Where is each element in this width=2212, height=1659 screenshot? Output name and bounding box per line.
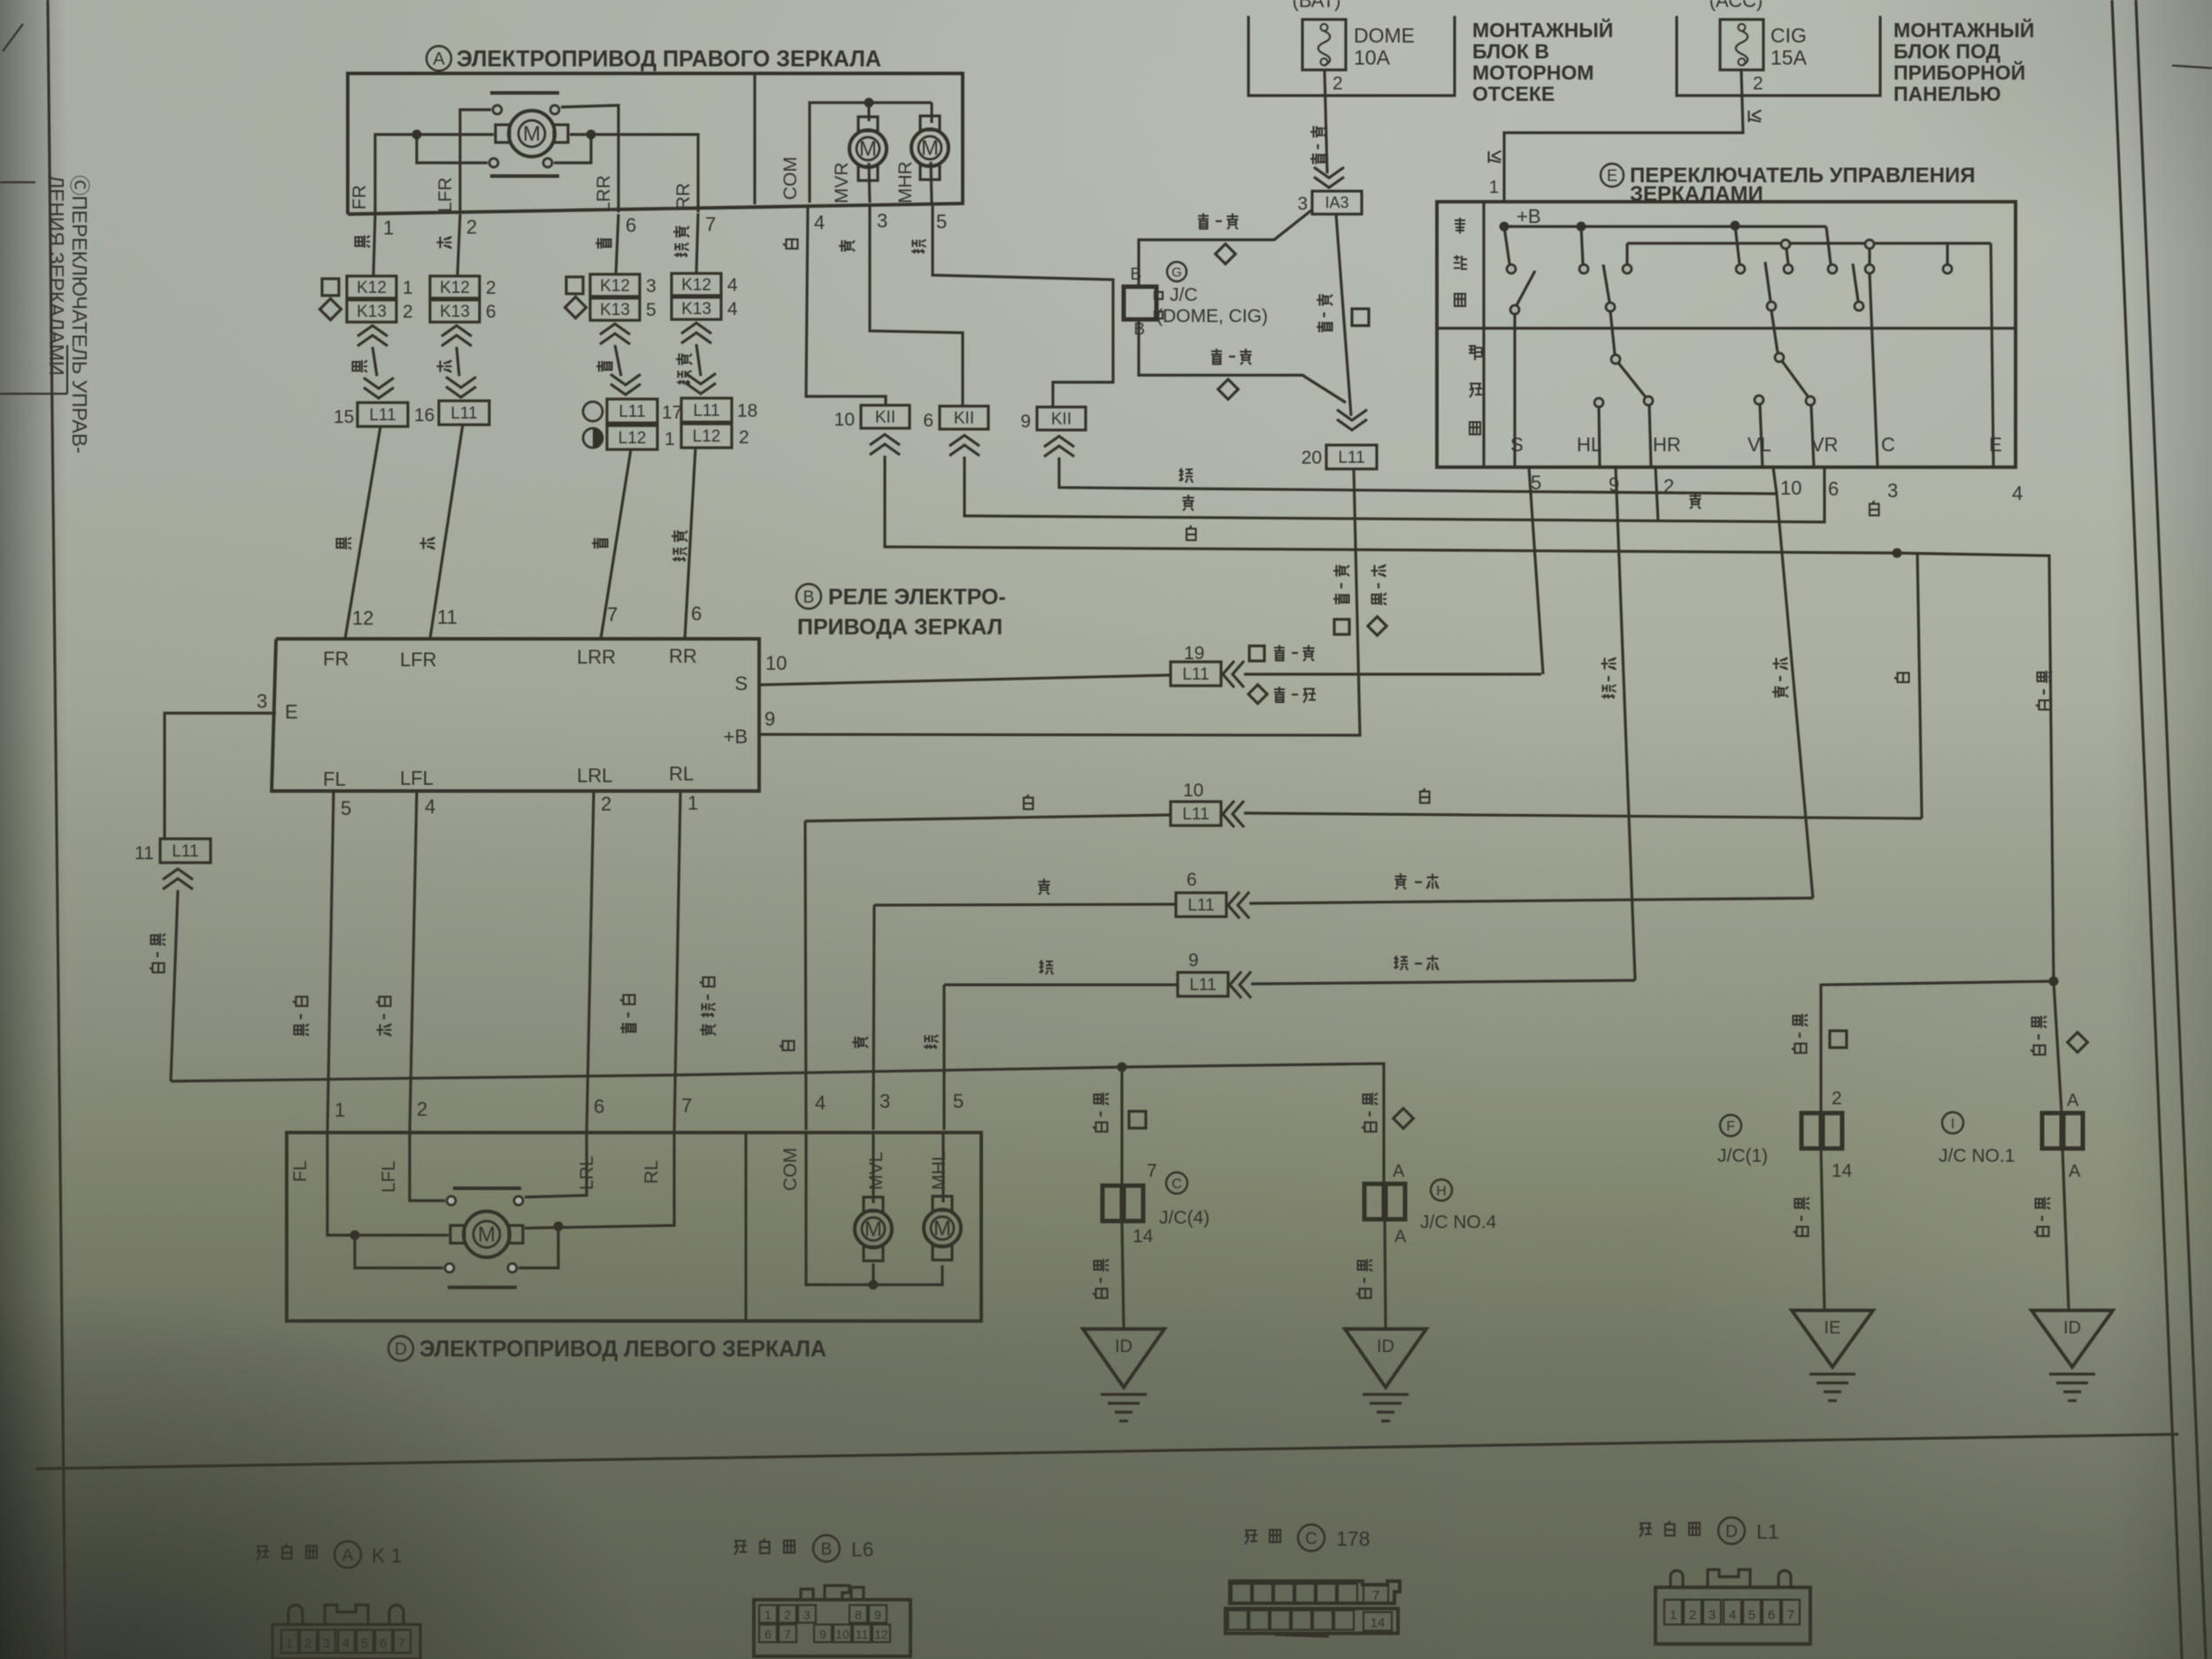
wire color red col2 row3 [420,538,435,549]
svg-text:E: E [285,701,298,723]
svg-text:2: 2 [1689,1608,1696,1623]
title E line1 [1601,164,1624,187]
wire LFR pin2 to K12 [457,214,460,276]
label green circuit9 [1179,468,1194,483]
label H circled [1431,1179,1452,1201]
connector K11-10 [861,405,910,428]
svg-text:16: 16 [414,405,434,426]
wire LRR to TR contact [561,105,618,212]
wire VL to changeover pivot [1771,311,1778,352]
wire VL contact down [1760,404,1763,467]
junction dot bus1 c [1731,221,1740,231]
label C circled [1166,1172,1187,1194]
motor bar bottom box D [448,1286,517,1289]
wire RR to motor right [570,134,698,212]
contact HL top [1579,265,1588,273]
connector K13 pin4 [672,297,721,319]
svg-text:15: 15 [334,407,354,427]
label black-white C col [1094,1093,1110,1105]
svg-text:LRL: LRL [577,764,612,787]
chevrons under K11-9 [1044,436,1074,457]
label white COM-D col [780,1041,795,1051]
svg-text:K13: K13 [440,303,470,321]
svg-text:6: 6 [923,411,933,431]
svg-text:3: 3 [803,1608,810,1622]
contact BL box A [489,158,498,167]
chevrons under K13 col4 [681,323,711,343]
svg-text:L11: L11 [369,406,396,425]
wire E down [1991,243,1993,467]
svg-text:6: 6 [380,1636,387,1651]
contact HL bottom [1594,398,1603,407]
svg-text:A: A [433,50,445,69]
junction dot FL-D [350,1231,360,1240]
switch box E outline [1437,202,2016,467]
wire dotRL to BR [518,1231,558,1268]
chevrons above L11-18 [686,373,716,394]
wire HL contact down [1599,407,1600,467]
svg-text:L11: L11 [450,404,477,423]
label white-black H col lower [1358,1259,1373,1271]
svg-text:L11: L11 [1189,976,1216,995]
wire color yellow-green col4 row3 [672,531,687,542]
wire MHR to K11-9 [933,204,1113,407]
wire MHL up to row9 [942,985,945,1130]
svg-text:10: 10 [834,410,855,430]
svg-text:FR: FR [349,185,370,210]
connector L11-9row [1178,972,1228,996]
wire to F column [1821,981,2054,1113]
wire relay FL down [327,791,334,1133]
chevrons above L11-16 [446,377,476,397]
svg-text:K12: K12 [681,276,711,295]
fuse CIG 15A [1720,19,1763,70]
svg-text:HR: HR [1653,434,1681,456]
label select section kanji [1469,345,1482,360]
svg-text:1: 1 [286,1636,293,1651]
wire green circuit9: K11-9 to VL [1059,457,1777,494]
svg-text:1: 1 [403,278,413,298]
label blue-yellow dome col [1310,127,1326,138]
svg-text:S: S [1510,434,1524,456]
label white-black C col lower [1094,1259,1110,1271]
svg-text:1: 1 [664,429,675,449]
connector K11-6 [940,406,988,429]
wire VR contact down [1811,405,1814,467]
label blue-yellow +B col [1333,565,1349,577]
label connector A: milky white A K1 [257,1547,269,1561]
svg-text:5: 5 [361,1636,368,1651]
wire dot-RR to BR contact [554,139,591,163]
connector D pinout drawing [1655,1587,1810,1644]
motor M box A (right mirror) [509,111,555,157]
svg-text:4: 4 [815,1092,826,1114]
svg-text:(DOME, CIG): (DOME, CIG) [1156,306,1268,326]
svg-text:ЭЛЕКТРОПРИВОД ЛЕВОГО ЗЕРКАЛА: ЭЛЕКТРОПРИВОД ЛЕВОГО ЗЕРКАЛА [419,1335,826,1362]
chevrons under K13 col1 [357,326,388,346]
box A divider [753,73,756,204]
box D outline [287,1133,981,1321]
wire HR contact down [1649,405,1651,467]
wire color yellow-green RR [673,227,689,238]
connector L12-2 [681,424,732,448]
label yellow circuit6 [1183,495,1194,511]
svg-text:M: M [864,1217,882,1241]
svg-text:H: H [1436,1184,1447,1199]
svg-text:IE: IE [1824,1318,1841,1338]
label green MHL col [924,1035,939,1049]
svg-text:G: G [1171,265,1182,280]
svg-text:6: 6 [1768,1608,1775,1623]
svg-text:J/C NO.4: J/C NO.4 [1420,1212,1497,1233]
svg-text:ID: ID [1377,1337,1394,1356]
svg-text:11: 11 [856,1627,869,1641]
svg-text:C: C [1171,1177,1182,1192]
contact TR box A [550,105,559,114]
wire S down to 19-row [1529,467,1543,674]
label white-black F col lower [1795,1197,1810,1210]
contact HR bottom [1644,396,1653,405]
svg-text:3: 3 [1887,480,1898,502]
contact C top [1865,265,1874,273]
wire MHL pin5 down [941,1133,944,1202]
wire yellow-red row6 [874,904,1176,905]
svg-text:DOME: DOME [1354,24,1415,47]
svg-text:VR: VR [1811,434,1839,456]
contact bus2 e [1865,240,1874,249]
wire COM-A to K11-10 [806,204,886,405]
svg-text:ЭЛЕКТРОПРИВОД ПРАВОГО ЗЕРКАЛА: ЭЛЕКТРОПРИВОД ПРАВОГО ЗЕРКАЛА [457,45,881,72]
junction connector H box [1364,1184,1384,1219]
symbol square C col [1129,1111,1146,1128]
bus2 [1627,242,1991,244]
connector L11-16 [439,401,489,425]
chevrons right of L11-9 [1230,972,1251,998]
symbol square col3 [566,277,583,294]
svg-text:3: 3 [879,1090,890,1112]
changeover pivot HR [1611,355,1620,364]
wire color blue col3 row3 [592,538,608,549]
label green row9 left [1040,960,1054,975]
chevrons into IA3 [1314,167,1344,188]
chevrons right of L11-10 [1223,801,1244,827]
label connector C: orange C 178 [1245,1531,1257,1545]
wire RL to motor right [525,1133,674,1228]
svg-text:B: B [1130,265,1141,284]
svg-text:10: 10 [835,1627,849,1641]
svg-text:I: I [1951,1117,1955,1132]
svg-text:A: A [1393,1162,1405,1181]
junction connector G box [1124,287,1156,319]
svg-text:L12: L12 [693,427,721,446]
svg-text:COM: COM [780,157,801,200]
motor MVR (vertical actuator right) [849,130,887,167]
svg-text:3: 3 [257,690,267,712]
chevrons above L11-15 [364,378,394,398]
svg-text:L11: L11 [1182,805,1209,824]
wire color blue LRR [595,238,611,249]
svg-text:17: 17 [662,403,682,423]
label I circled [1942,1112,1963,1133]
label connector D: milky white D L1 [1640,1524,1652,1538]
wire to MHR motor top [930,103,933,123]
svg-text:2: 2 [466,216,477,238]
symbol square IA3 col [1352,309,1369,326]
wire I col to ground [2062,1148,2069,1310]
svg-text:M: M [859,137,877,161]
svg-text:7: 7 [398,1636,405,1651]
connector K13 pin6 col2 [430,300,480,322]
changeover pivot VR [1775,353,1784,362]
svg-text:4: 4 [342,1636,349,1651]
wire col1 L11 to relay pin12 [345,426,380,639]
connector K13 pin5 [590,298,640,320]
connector K11-9 [1037,407,1086,430]
junction connector I box [2042,1113,2062,1148]
svg-text:B: B [803,588,815,607]
svg-text:12: 12 [874,1627,888,1641]
symbol diamond I col [2068,1033,2088,1053]
wire to MVR motor top [867,103,870,121]
wire MHR motor bottom to pin 5 [931,162,932,203]
symbol diamond G top [1216,244,1236,265]
wire col2 L11 to relay pin11 [430,425,463,639]
svg-text:C: C [1881,434,1895,456]
wire H col to ground [1385,1219,1386,1327]
svg-text:A: A [342,1547,354,1565]
svg-text:COM: COM [780,1148,801,1191]
wire white row10 [805,815,1171,821]
wire F col to ground [1821,1148,1824,1310]
svg-text:4: 4 [727,299,738,319]
partial box C cut at left edge [0,181,35,183]
connector L11-6row [1176,893,1226,917]
page border right line 2 [2136,0,2206,1659]
svg-text:7: 7 [1372,1588,1379,1603]
connector C pinout drawing [1230,1581,1400,1603]
svg-text:K12: K12 [357,279,387,297]
wire K13-1 down [373,347,377,376]
wire VL long down to 6-row [1773,467,1813,898]
label white-black I col lower [2036,1197,2051,1210]
svg-text:M: M [921,136,939,160]
label green-red row9 [1394,956,1409,971]
connector L11-20 [1326,445,1377,469]
wire green-red row9 [944,983,1178,986]
paper grain [0,0,1,1]
svg-text:K13: K13 [357,303,387,321]
svg-text:4: 4 [727,275,738,296]
lever VL [1765,262,1770,301]
motor MVL [855,1210,892,1248]
svg-text:6: 6 [626,214,636,236]
symbol square F col [1830,1031,1847,1048]
contact BL box D [445,1263,454,1272]
wire relay S to connector 19 [759,675,1171,685]
svg-text:5: 5 [936,211,947,233]
chevrons under K13 col3 [600,324,630,344]
svg-text:7: 7 [681,1094,692,1117]
svg-text:2: 2 [304,1636,311,1651]
motor MHL [924,1210,961,1247]
svg-text:7: 7 [607,603,618,626]
lever S [1517,271,1535,305]
svg-text:VL: VL [1747,434,1771,456]
horizontal separator line above connector row [35,1434,2178,1469]
svg-text:KII: KII [1051,410,1071,428]
wire color white COM [783,240,798,250]
wire color black FR [356,235,371,248]
stub e down [1868,249,1870,264]
symbol diamond 19 row [1248,685,1267,703]
svg-text:2: 2 [784,1608,791,1622]
contact E top [1943,265,1952,273]
wire FR to motor left [375,134,494,212]
svg-text:MVR: MVR [832,162,852,204]
engine room junction block bracket [1248,16,1455,96]
svg-text:K 1: K 1 [372,1544,403,1567]
svg-text:LFL: LFL [379,1161,399,1193]
svg-text:A: A [1394,1227,1407,1247]
svg-text:4: 4 [1729,1608,1736,1623]
svg-text:9: 9 [1188,950,1199,971]
svg-text:10A: 10A [1354,46,1391,69]
label operation section kanji [1455,218,1465,234]
motor M box D (left mirror) [464,1211,510,1257]
svg-text:БЛОК ПОД: БЛОК ПОД [1893,40,2001,63]
svg-text:10: 10 [1183,780,1203,801]
wire 19 row to switch S wire [1244,672,1541,675]
label white right [1870,501,1879,516]
symbol diamond col1 [319,298,341,319]
wire color black col1 row2 [353,360,368,373]
svg-text:ЛЕНИЯ ЗЕРКАЛАМИ: ЛЕНИЯ ЗЕРКАЛАМИ [45,175,68,376]
wire HR stub to yellow [1655,467,1658,521]
svg-text:FL: FL [323,768,346,790]
svg-text:(АСС): (АСС) [1709,0,1763,12]
symbol square +B col [1334,619,1349,634]
box A outline (right mirror drive unit) [348,73,963,214]
svg-text:K13: K13 [681,300,711,319]
label white row10 left [1024,795,1033,810]
wire color blue col3 row2 [596,361,612,372]
svg-text:3: 3 [646,276,657,296]
label green-red HL col [1601,658,1617,670]
wire C down [1870,273,1878,467]
COM-D internal wire [806,1133,942,1285]
wire dot-FR to BL contact [417,139,488,163]
svg-text:L11: L11 [618,403,645,421]
svg-text:KII: KII [954,409,974,427]
svg-text:2: 2 [1753,73,1763,94]
label blue-yellow G bottom [1211,349,1222,365]
junction connector F box [1801,1113,1821,1148]
connector K12 pin3 [590,274,640,296]
ground IE [1792,1310,1873,1367]
wire relay LRL down [587,791,594,1133]
contact VL top [1736,265,1745,273]
wire HL long down to 9-row [1616,467,1635,980]
stub bus1 to S contact [1504,227,1509,264]
junction dot RL-D [554,1222,564,1232]
connector L11-11 [160,839,211,863]
svg-text:7: 7 [1147,1161,1157,1181]
junction dot FR [412,130,422,140]
box E inner horizontal [1437,326,2016,329]
contact VL right [1784,265,1793,273]
svg-text:J/C(1): J/C(1) [1717,1146,1768,1166]
junction dot COM bus [864,98,874,108]
label yellowgreen-white RL col [700,978,715,987]
connector K12 pin1 [347,276,396,298]
contact TR box D [514,1196,523,1205]
svg-text:4: 4 [2012,482,2023,504]
wire MVL pin3 down [872,1133,874,1203]
svg-text:11: 11 [437,606,457,628]
wire color white-black E col [151,933,166,946]
label connector B: milky white B L6 [734,1541,747,1555]
svg-text:D: D [1725,1523,1738,1541]
svg-text:L11: L11 [172,842,198,861]
label white right lower [1894,673,1909,683]
title D: electric drive of left mirror [388,1336,413,1361]
wire RR pin7 to K12 [696,213,698,273]
wire relay LFL down [410,791,417,1133]
svg-text:ⒸПЕРЕКЛЮЧАТЕЛЬ УПРАВ-: ⒸПЕРЕКЛЮЧАТЕЛЬ УПРАВ- [68,175,91,454]
lever VR [1853,264,1858,301]
svg-text:S: S [734,672,748,695]
svg-text:9: 9 [1020,411,1031,432]
wire COM-D up to row10 [805,821,806,1130]
contact S lower [1510,305,1519,314]
svg-text:18: 18 [737,401,757,421]
svg-text:MVL: MVL [866,1152,887,1190]
box D right edge extra [979,1133,982,1321]
wire color red col2 row2 [437,361,452,373]
label black-red +B col [1371,565,1386,577]
symbol square col1 [322,279,339,296]
junction dot white at C pin [1893,549,1902,558]
label G circled [1167,262,1187,281]
svg-text:(ВАТ): (ВАТ) [1293,0,1341,12]
svg-text:7: 7 [784,1627,791,1641]
wire relay +B to vertical [759,469,1360,735]
ground ID center [1345,1329,1426,1387]
label blue-orange 19 row [1274,687,1285,703]
symbol circle open col3 [583,402,603,421]
contact BR box A [543,158,552,167]
stub bus1-b down [1581,227,1583,264]
svg-text:ID: ID [1115,1337,1133,1356]
page border left [48,0,65,1659]
svg-text:9: 9 [819,1627,826,1641]
label blue-white LRL col [620,995,635,1005]
svg-text:FR: FR [323,648,349,670]
label white-black far right col [2038,671,2053,683]
motor MHR (horizontal actuator right) [911,129,949,166]
junction connector G loop bottom wire [1139,319,1346,403]
wire LRL to TR [525,1133,587,1197]
svg-text:3: 3 [323,1636,330,1651]
page border right line 1 [2112,0,2182,1659]
label yellow row6 left [1039,879,1050,895]
svg-text:L6: L6 [851,1538,874,1561]
svg-text:4: 4 [425,795,435,818]
wire K13-3 down [615,345,621,376]
svg-text:J/C(4): J/C(4) [1159,1208,1210,1228]
svg-text:1: 1 [764,1608,772,1622]
svg-text:MHL: MHL [929,1151,949,1190]
